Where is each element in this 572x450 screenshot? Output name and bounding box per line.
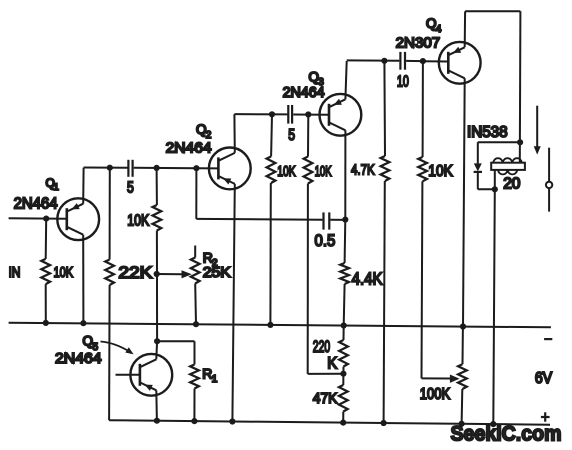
node 22K junction — [107, 165, 113, 171]
wire R1 top lead — [194, 341, 196, 364]
svg-text:10K: 10K — [277, 164, 296, 180]
arrowhead 100K wiper — [450, 375, 460, 383]
wire Q1 emitter up — [82, 168, 84, 204]
arrowhead R2 wiper — [182, 270, 192, 278]
wire 22K top lead — [109, 168, 111, 260]
svg-text:20: 20 — [503, 176, 521, 193]
wire Q3 emitter to C3 — [347, 59, 400, 61]
svg-text:5: 5 — [127, 180, 134, 197]
node 4.7K junction — [381, 58, 387, 64]
svg-text:10K: 10K — [127, 213, 150, 230]
contact terminal circle — [546, 182, 552, 188]
svg-text:1: 1 — [212, 374, 218, 385]
wire Q2 collector to C2 — [234, 113, 287, 115]
wire Q1 collector down to negative rail — [82, 235, 84, 324]
svg-text:47K: 47K — [313, 390, 338, 407]
transistor Q5 2N464 — [130, 354, 172, 396]
wire contact lower — [548, 188, 550, 211]
svg-text:K: K — [327, 354, 337, 372]
wire Q2 base — [196, 167, 218, 169]
node Q4 collector / negative rail — [460, 323, 466, 329]
wire Q2 base drop — [195, 168, 197, 219]
relay coil 20 — [493, 158, 502, 167]
wire 4.4K top lead — [344, 220, 347, 263]
wire Q4 emitter up — [464, 11, 466, 47]
wire 10K-E corner to 100K wiper — [422, 377, 451, 379]
node 10K-C / negative rail — [267, 322, 273, 328]
positive supply rail — [109, 420, 550, 425]
wire R2 bottom lead to negative rail — [194, 284, 197, 325]
node Q1 collector / negative rail — [80, 320, 86, 326]
wire C1 to Q2 base — [134, 167, 197, 169]
wire 22K bottom lead to positive rail corner — [108, 285, 111, 420]
node Q2 base junction — [193, 165, 199, 171]
capacitor C 10uF (Q3-Q4) — [399, 52, 401, 70]
wire 10K bottom lead to negative rail — [45, 284, 47, 323]
svg-text:22K: 22K — [118, 263, 152, 282]
capacitor C 0.5uF — [322, 212, 324, 229]
wire 100K top lead — [462, 327, 464, 365]
node Q2 emitter / positive rail — [229, 418, 235, 424]
diode 1N538 cathode bar — [474, 171, 482, 173]
svg-text:4: 4 — [436, 24, 442, 35]
svg-text:220: 220 — [313, 338, 330, 356]
svg-text:6V: 6V — [535, 370, 553, 387]
wire input IN to Q1 base — [9, 217, 67, 220]
svg-text:0.5: 0.5 — [315, 232, 336, 250]
resistor 22K — [105, 260, 114, 286]
svg-text:Q: Q — [83, 334, 94, 349]
svg-text:4.7K: 4.7K — [351, 162, 375, 179]
node R1 / positive rail — [191, 418, 197, 424]
wire 4.4K bottom lead to negative rail — [343, 284, 346, 326]
transistor Q1 2N464 — [57, 198, 99, 240]
wire coil left drop — [494, 170, 496, 189]
wire 220K bottom lead — [342, 367, 344, 374]
node 0.5 / Q3 emitter junction — [342, 217, 348, 223]
wire 10K-D bottom lead — [307, 184, 309, 374]
svg-text:100K: 100K — [420, 386, 451, 403]
resistor R1 — [190, 365, 199, 389]
resistor 10K (Q4 base return) — [418, 157, 427, 181]
wire diode drop — [477, 142, 479, 163]
svg-text:2N307: 2N307 — [396, 34, 441, 51]
svg-text:10K: 10K — [315, 164, 332, 180]
resistor 10K (Q2 base return) — [153, 205, 162, 231]
node R2 / negative rail — [193, 321, 199, 327]
wire 220K top lead — [343, 326, 345, 341]
wire contact upper — [548, 148, 550, 182]
svg-text:SeekIC.com: SeekIC.com — [451, 422, 562, 446]
wire Q5 base stub — [116, 374, 140, 376]
resistor 220K — [339, 340, 348, 367]
node 100K / positive rail — [459, 421, 465, 427]
transistor Q2 2N464 — [209, 148, 251, 190]
wire 10K-C top lead — [270, 114, 273, 156]
node 4.7K / positive rail — [381, 420, 387, 426]
wire 10K-C bottom lead to negative rail — [269, 183, 271, 325]
node 10K-B junction — [154, 165, 160, 171]
wire Q5 collector to R1 — [157, 340, 194, 342]
wire 47K bottom lead to positive rail — [342, 412, 344, 423]
wire C2 to Q3 base — [293, 114, 308, 116]
wire to C 0.5 — [196, 218, 322, 221]
node R2 wiper junction — [154, 271, 160, 277]
svg-text:5: 5 — [288, 127, 295, 144]
svg-text:IN: IN — [9, 265, 21, 281]
resistor 10K (Q3 base return) — [304, 157, 313, 184]
wire diode bottom to coil — [478, 188, 495, 190]
node Q5 collector junction — [154, 338, 160, 344]
wire 10K R-in top lead — [45, 219, 48, 259]
wire Q5 collector up — [155, 341, 158, 359]
wire 4.7K bottom lead to positive rail — [384, 181, 385, 423]
wire Q1 emitter to C1 — [84, 167, 128, 169]
transistor Q3 2N464 — [320, 94, 362, 136]
wire 100K bottom lead to positive rail — [461, 389, 464, 424]
pointer arrow Q5 label — [101, 342, 129, 352]
resistor 47K — [339, 385, 348, 412]
battery plus mark — [541, 416, 550, 418]
wire top loop down to relay — [519, 11, 522, 163]
wire Q4 collector down to negative rail — [463, 78, 465, 326]
wire 10K-E bottom lead — [421, 181, 424, 378]
transistor Q4 2N307 — [439, 42, 481, 84]
wire Q2 emitter down to positive rail — [232, 184, 234, 422]
svg-text:25K: 25K — [203, 265, 231, 281]
node 10K-D junction — [305, 111, 311, 117]
svg-text:2N464: 2N464 — [166, 140, 212, 157]
wire 10K-B bottom lead to Q5 node — [156, 231, 158, 342]
svg-text:2N464: 2N464 — [14, 196, 58, 213]
wire Q4 base — [423, 60, 448, 62]
svg-text:4.4K: 4.4K — [352, 268, 383, 288]
svg-text:10K: 10K — [428, 163, 453, 180]
wire 10K-D top lead — [307, 115, 309, 157]
wire diode top — [478, 141, 520, 143]
wire Q2 collector up — [233, 114, 235, 153]
capacitor C 5uF (Q2-Q3) — [287, 105, 289, 124]
diode 1N538 triangle — [474, 163, 482, 171]
node 220K/47K junction — [340, 371, 346, 377]
wire Q3 emitter up — [345, 61, 346, 99]
wire 10K-E top lead — [422, 61, 424, 157]
resistor 10K (Q2 collector load) — [267, 157, 276, 184]
battery minus mark — [544, 338, 552, 340]
wire Q5 emitter down to positive rail — [155, 390, 158, 420]
svg-text:10: 10 — [397, 74, 409, 91]
wire 47K top lead — [342, 374, 344, 385]
node coil / positive rail — [490, 421, 496, 427]
resistor 4.7K — [381, 156, 390, 181]
wire R2 top stub — [194, 246, 196, 258]
arrowhead contact arm — [534, 146, 541, 154]
node diode wire junction — [517, 139, 523, 145]
node 10K-C junction — [269, 111, 275, 117]
potentiometer 100K — [458, 364, 467, 389]
wire C 0.5 to Q3 emitter line — [330, 219, 345, 221]
svg-text:1: 1 — [54, 182, 59, 192]
wire R2 wiper arm — [157, 273, 182, 275]
wire coil line to positive rail — [493, 189, 495, 424]
potentiometer R2 25K — [191, 258, 200, 284]
wire diode bottom lead — [477, 173, 479, 189]
node input/10K junction — [43, 216, 49, 222]
svg-text:10K: 10K — [54, 265, 74, 281]
wire R1 bottom lead to positive rail — [193, 389, 195, 422]
wire top loop horizontal — [465, 10, 520, 12]
node Q5 emitter / positive rail — [154, 418, 160, 424]
relay contact arm — [536, 106, 538, 147]
capacitor C 5uF (Q1-Q2) — [127, 160, 129, 177]
node 10K-E junction — [420, 58, 426, 64]
resistor 10K (input bias) — [41, 259, 50, 284]
node 47K / positive rail — [340, 420, 346, 426]
negative supply rail — [9, 323, 551, 328]
node 10K / negative rail — [43, 320, 49, 326]
svg-text:2N464: 2N464 — [55, 350, 102, 367]
wire Q3 collector down — [344, 130, 346, 219]
wire 10K-B top lead — [156, 168, 158, 205]
svg-text:IN538: IN538 — [467, 124, 508, 141]
wire C3 to 10K node — [406, 60, 423, 62]
wire Q3 base — [308, 114, 329, 116]
resistor 4.4K — [340, 263, 349, 284]
node coil bottom junction — [492, 186, 498, 192]
node 4.4K / negative rail — [341, 322, 347, 328]
wire 10K-D corner to 220K/47K junction — [308, 373, 344, 375]
wire 4.7K top lead — [383, 61, 386, 156]
svg-text:2N464: 2N464 — [283, 85, 325, 101]
